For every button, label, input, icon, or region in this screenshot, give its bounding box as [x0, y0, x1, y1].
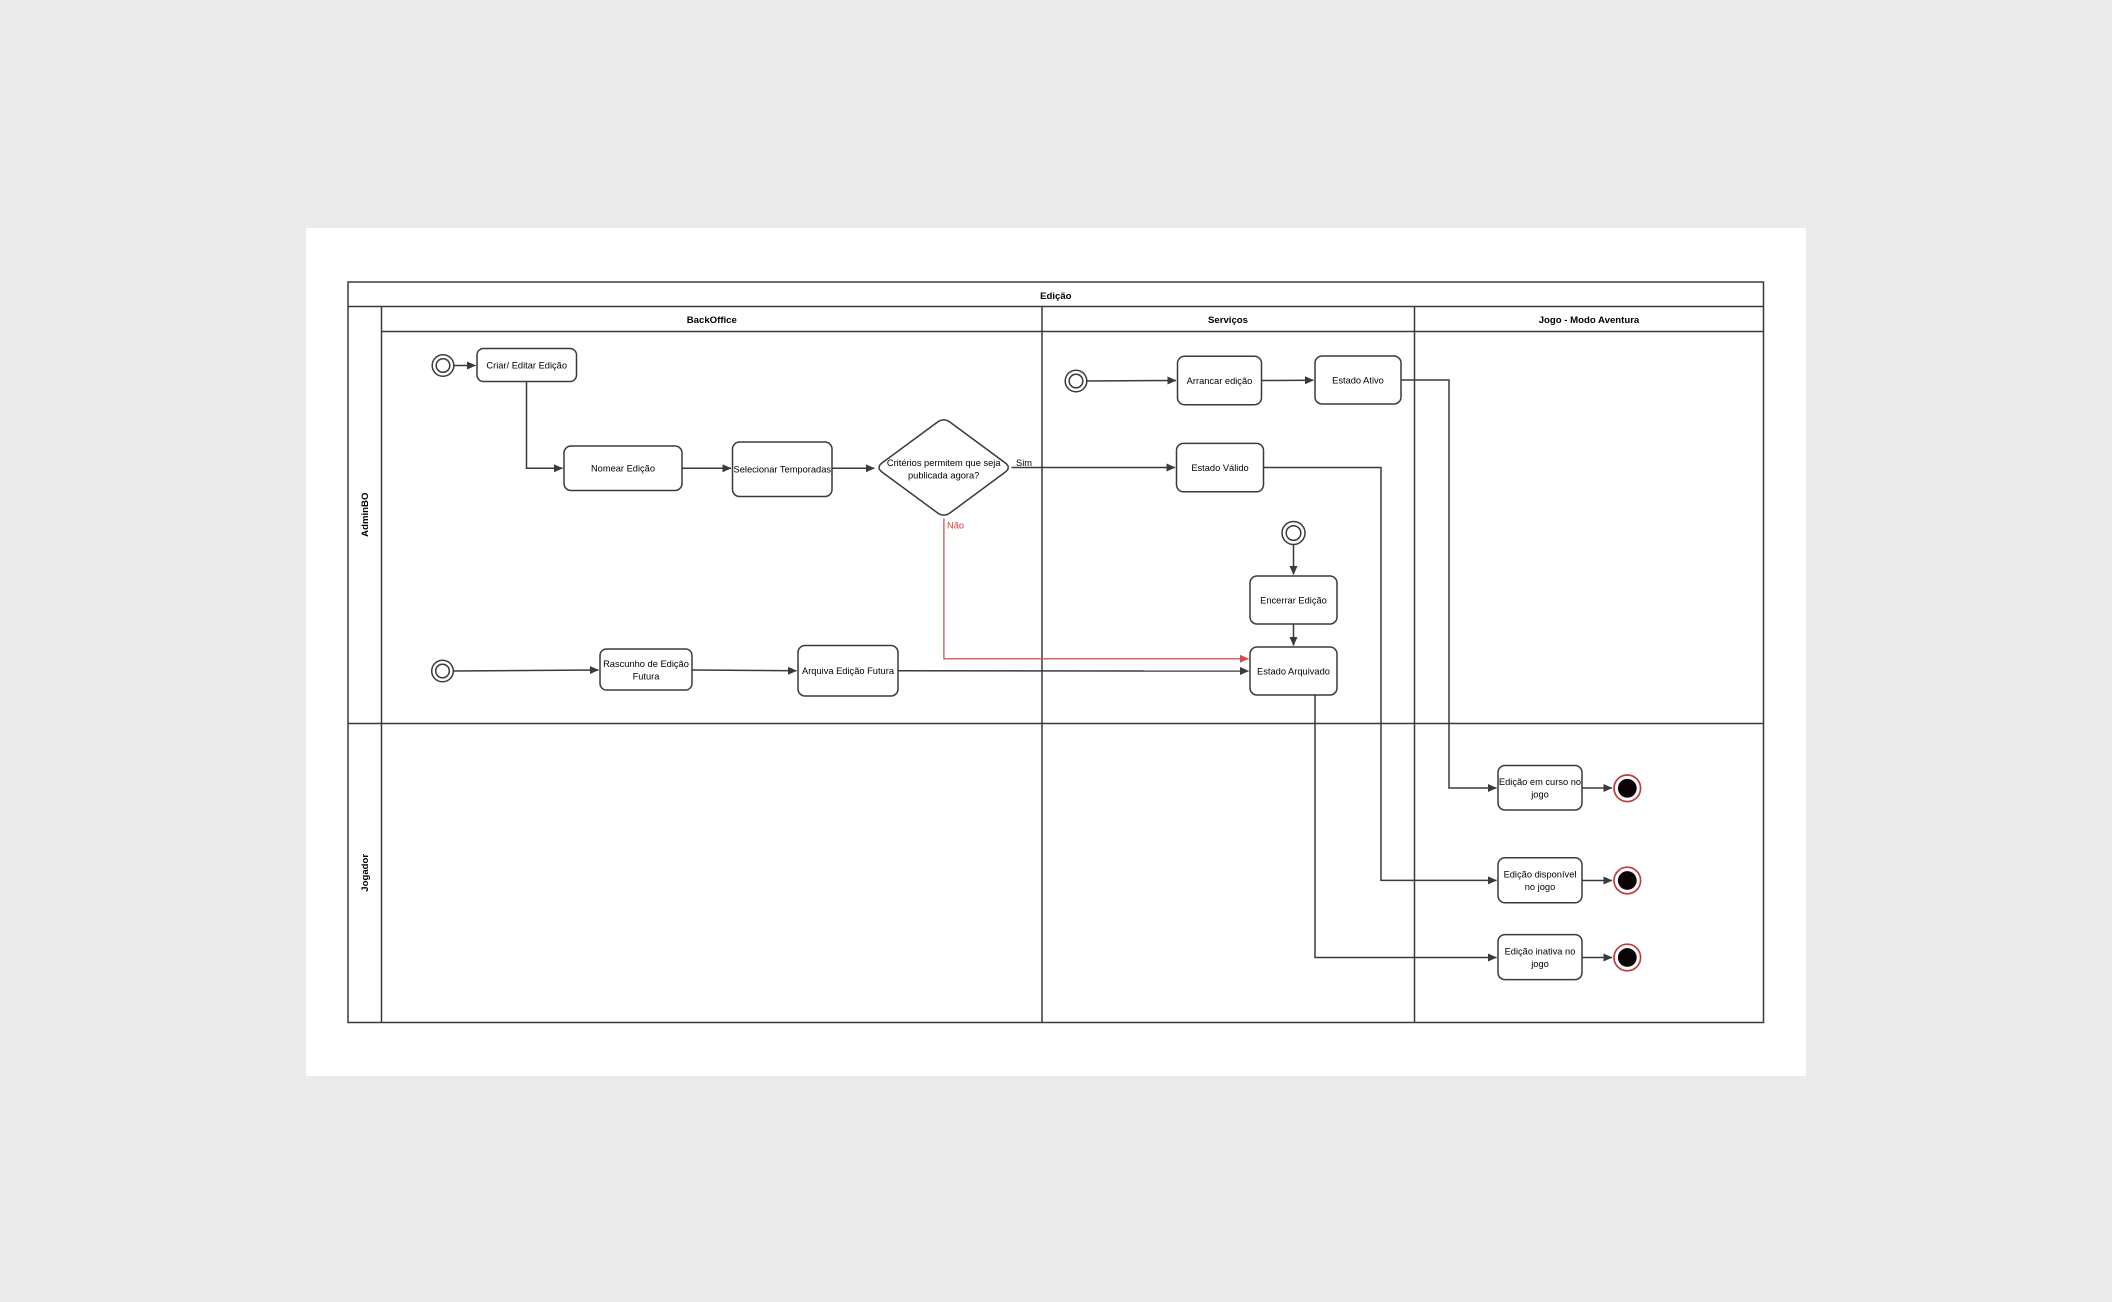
svg-text:Estado Arquivado: Estado Arquivado [1257, 666, 1330, 676]
wire Estado Valido to Edicao disponivel [1264, 468, 1497, 881]
activity Estado Valido [1177, 443, 1264, 491]
wire Nomear to Selecionar [682, 467, 731, 469]
pool outer frame [348, 282, 1764, 1023]
activity Criar/ Editar Edicao [477, 349, 577, 382]
wire decision Sim to Estado Valido [1012, 467, 1176, 469]
final node 3 [1614, 944, 1641, 971]
svg-text:Rascunho de Edição: Rascunho de Edição [603, 659, 689, 669]
svg-text:jogo: jogo [1530, 959, 1549, 969]
activity Selecionar Temporadas [733, 442, 833, 497]
svg-text:Não: Não [947, 521, 964, 531]
column divider Servicos/Jogo [1414, 307, 1416, 1023]
decision Criterios permitem que seja publicada agora? [879, 420, 1008, 515]
svg-text:Edição inativa no: Edição inativa no [1505, 947, 1576, 957]
svg-text:AdminBO: AdminBO [360, 492, 371, 537]
svg-text:Serviços: Serviços [1208, 315, 1248, 326]
svg-text:Futura: Futura [633, 672, 661, 682]
activity Edicao inativa no jogo [1498, 935, 1582, 980]
wire start1 to Criar [454, 365, 476, 367]
wire Encerrar to Estado Arquivado [1293, 624, 1295, 646]
svg-text:publicada agora?: publicada agora? [908, 471, 979, 481]
wire start2 to Rascunho [453, 670, 598, 671]
wire start4 to Arrancar [1087, 380, 1176, 383]
wire box2 to final2 [1582, 880, 1612, 882]
start node 4 [1065, 370, 1087, 392]
activity Edicao em curso no jogo [1498, 766, 1582, 811]
svg-text:jogo: jogo [1530, 790, 1549, 800]
wire decision Nao to Estado Arquivado (red) [944, 519, 1249, 659]
wire box3 to final3 [1582, 957, 1612, 959]
activity Edicao disponivel no jogo [1498, 858, 1582, 903]
wire Criar to Nomear [527, 382, 563, 469]
wire start3 to Encerrar [1293, 545, 1295, 575]
activity Estado Ativo [1315, 356, 1401, 404]
start node 1 [432, 355, 454, 377]
wire Selecionar to decision [832, 467, 874, 469]
start node 2 [432, 660, 454, 682]
svg-text:Edição em curso no: Edição em curso no [1499, 777, 1581, 787]
svg-text:Sim: Sim [1016, 458, 1032, 468]
svg-text:Critérios permitem que seja: Critérios permitem que seja [887, 458, 1001, 468]
activity Nomear Edicao [564, 446, 682, 491]
svg-text:Jogador: Jogador [360, 854, 371, 892]
svg-text:Encerrar Edição: Encerrar Edição [1260, 595, 1327, 605]
lane label column divider [381, 307, 383, 1023]
svg-text:no jogo: no jogo [1525, 882, 1556, 892]
svg-text:Edição: Edição [1040, 291, 1072, 302]
svg-text:BackOffice: BackOffice [687, 315, 737, 326]
svg-text:Estado Ativo: Estado Ativo [1332, 375, 1384, 385]
wire Arquiva to Estado Arquivado [898, 670, 1249, 672]
activity Arquiva Edicao Futura [798, 646, 898, 697]
svg-text:Selecionar Temporadas: Selecionar Temporadas [734, 465, 832, 475]
svg-text:Nomear Edição: Nomear Edição [591, 464, 655, 474]
svg-text:Arrancar edição: Arrancar edição [1187, 376, 1253, 386]
column divider BackOffice/Servicos [1041, 307, 1043, 1023]
column header bottom line [382, 331, 1764, 333]
wire box1 to final1 [1582, 787, 1612, 789]
svg-text:Arquiva Edição Futura: Arquiva Edição Futura [802, 666, 895, 676]
final node 2 [1614, 867, 1641, 894]
wire Estado Arquivado to Edicao inativa [1315, 695, 1497, 958]
pool title separator [348, 306, 1764, 308]
wire Arrancar to Estado Ativo [1262, 379, 1314, 381]
activity Encerrar Edicao [1250, 576, 1337, 624]
wire Rascunho to Arquiva [692, 669, 797, 672]
final node 1 [1614, 775, 1641, 802]
page background [306, 228, 1806, 1076]
activity Arrancar edicao [1178, 356, 1262, 404]
activity Estado Arquivado [1250, 647, 1337, 695]
svg-text:Edição disponível: Edição disponível [1504, 870, 1577, 880]
row divider AdminBO/Jogador [348, 723, 1764, 725]
svg-text:Estado Válido: Estado Válido [1191, 463, 1248, 473]
wire Estado Ativo to Edicao em curso [1401, 380, 1497, 788]
activity Rascunho de Edicao Futura [600, 649, 692, 690]
start node 3 [1282, 522, 1305, 545]
svg-text:Jogo - Modo Aventura: Jogo - Modo Aventura [1539, 315, 1640, 326]
svg-text:Criar/ Editar Edição: Criar/ Editar Edição [486, 361, 567, 371]
